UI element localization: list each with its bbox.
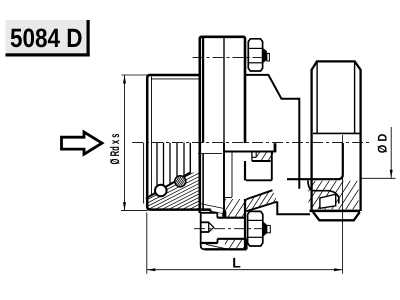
svg-text:Ø Rd x s: Ø Rd x s — [108, 133, 122, 164]
svg-text:Ø D: Ø D — [376, 134, 390, 154]
svg-text:5084 D: 5084 D — [10, 23, 83, 53]
svg-text:L: L — [232, 255, 241, 271]
